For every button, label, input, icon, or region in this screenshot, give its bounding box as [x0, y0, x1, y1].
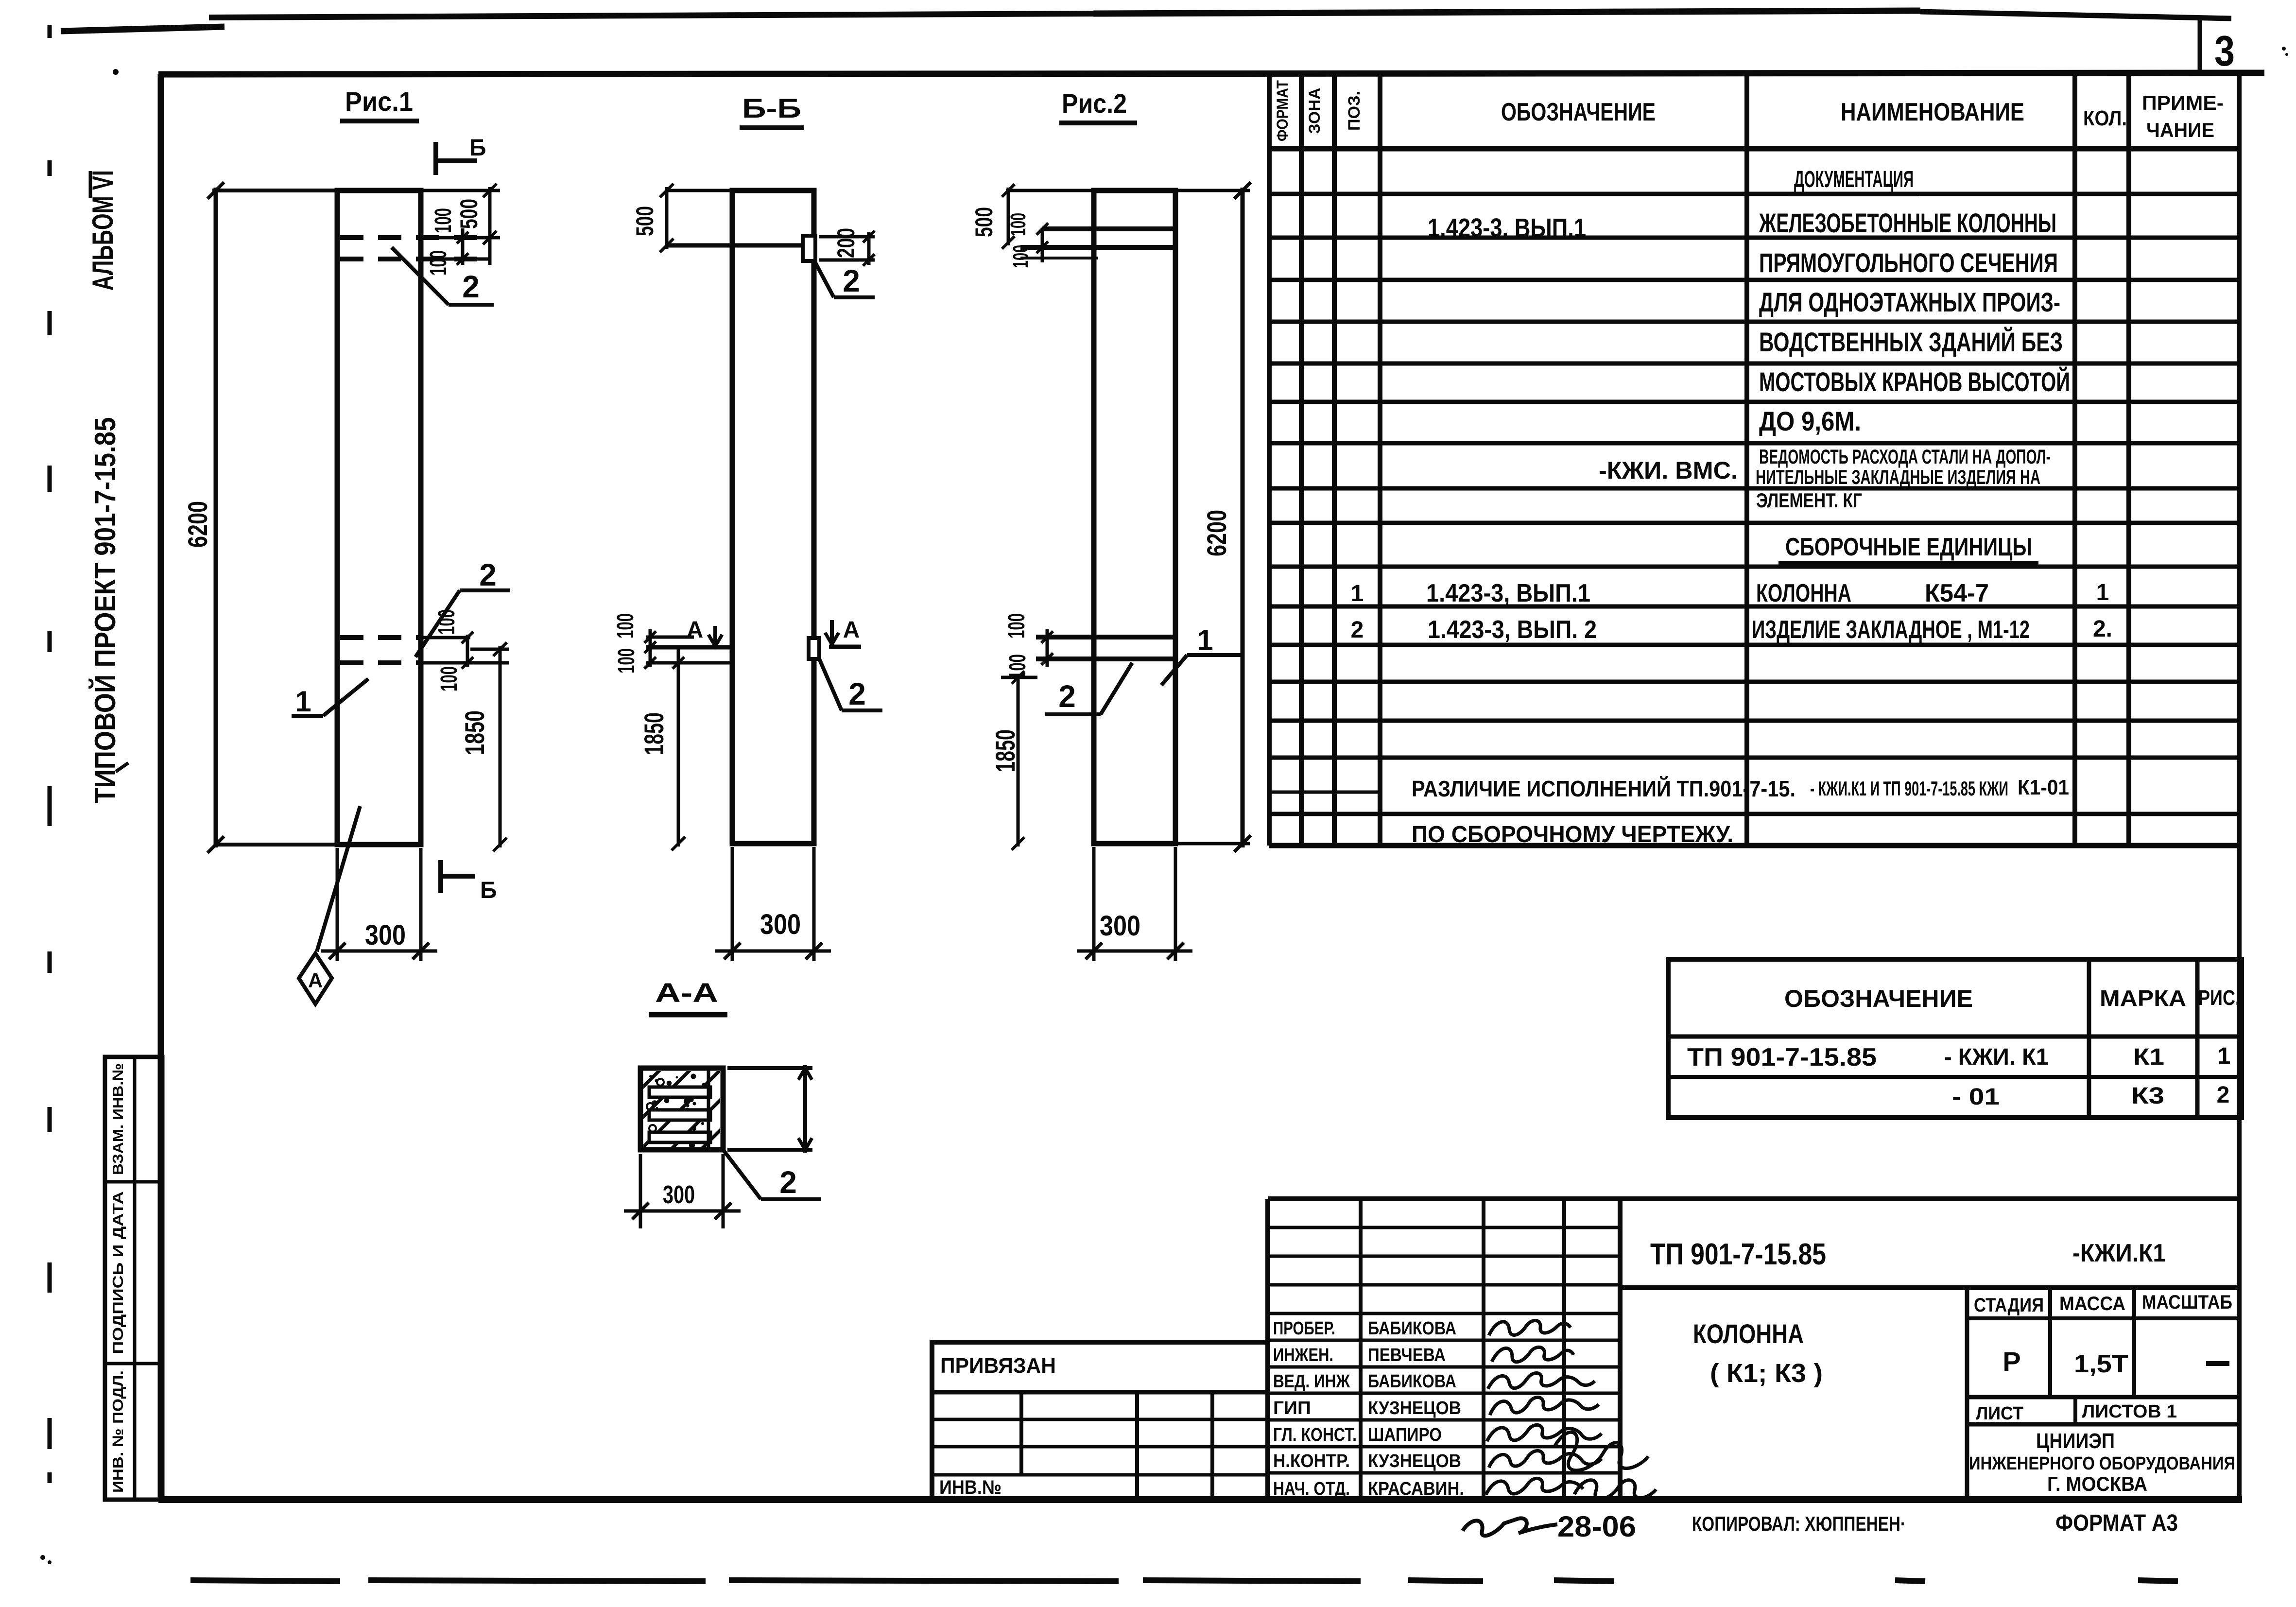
svg-text:ВОДСТВЕННЫХ ЗДАНИЙ БЕЗ: ВОДСТВЕННЫХ ЗДАНИЙ БЕЗ [1759, 327, 2063, 357]
partial row line in narrow columns [1269, 791, 1380, 794]
sheet frame border [158, 73, 2264, 74]
svg-text:28-06: 28-06 [1557, 1510, 1636, 1543]
svg-text:ГИП: ГИП [1273, 1398, 1311, 1418]
dimension 1850 (Б-Б) [677, 648, 680, 847]
svg-text:1: 1 [2218, 1043, 2231, 1069]
svg-text:ИЗДЕЛИЕ ЗАКЛАДНОЕ , М1-12: ИЗДЕЛИЕ ЗАКЛАДНОЕ , М1-12 [1752, 616, 2030, 644]
svg-text:100: 100 [436, 666, 462, 691]
scan artifact: ragged top edge line [61, 27, 224, 31]
svg-text:ШАПИРО: ШАПИРО [1368, 1425, 1442, 1445]
Привязан table grid [932, 1342, 1268, 1500]
svg-text:300: 300 [663, 1181, 695, 1209]
svg-text:2.: 2. [2093, 616, 2112, 642]
svg-text:А: А [308, 969, 323, 992]
svg-text:ИНЖЕНЕРНОГО ОБОРУДОВАНИЯ: ИНЖЕНЕРНОГО ОБОРУДОВАНИЯ [1969, 1453, 2235, 1474]
svg-text:Б: Б [469, 135, 486, 161]
svg-text:КУЗНЕЦОВ: КУЗНЕЦОВ [1368, 1451, 1461, 1471]
column K3 outline (Fig.2) [1094, 190, 1175, 844]
svg-text:( К1; К3 ): ( К1; К3 ) [1710, 1359, 1823, 1388]
svg-text:ОБОЗНАЧЕНИЕ: ОБОЗНАЧЕНИЕ [1501, 98, 1656, 126]
svg-text:1850: 1850 [459, 710, 490, 755]
section mark Б (bottom, Fig.1) [438, 860, 443, 893]
scan artifact: stray specks [40, 1555, 45, 1560]
svg-text:100: 100 [431, 208, 456, 233]
svg-text:-КЖИ. ВМС.: -КЖИ. ВМС. [1599, 457, 1738, 484]
svg-text:ИНВ.№: ИНВ.№ [939, 1477, 1001, 1498]
svg-text:2: 2 [479, 557, 497, 592]
svg-text:Б: Б [480, 878, 497, 903]
small dims 100/100 (Fig.1 middle) [422, 636, 470, 639]
svg-text:1: 1 [1351, 581, 1364, 606]
title block: big designation cell line [1620, 1285, 2239, 1290]
embedded plate lines (Fig.2 top) [1042, 226, 1175, 231]
svg-text:РИС.: РИС. [2198, 986, 2240, 1010]
leader to item 2 (Б-Б middle) [819, 659, 842, 710]
svg-text:300: 300 [760, 909, 801, 940]
svg-text:100: 100 [1006, 213, 1030, 236]
svg-text:ЗОНА: ЗОНА [1306, 88, 1323, 134]
svg-text:ВЕД. ИНЖ: ВЕД. ИНЖ [1273, 1371, 1350, 1392]
dimension 1850 (Fig.1) [499, 646, 502, 847]
svg-text:БАБИКОВА: БАБИКОВА [1368, 1318, 1456, 1339]
svg-text:1: 1 [295, 685, 311, 718]
svg-text:6200: 6200 [1201, 510, 1232, 556]
dimension 200 (Б-Б top right) [819, 235, 875, 239]
dimension 500 (Б-Б top left) [667, 189, 732, 192]
svg-text:ИНВ. № ПОДЛ.: ИНВ. № ПОДЛ. [109, 1370, 126, 1493]
svg-text:300: 300 [365, 919, 406, 951]
svg-text:ПРИМЕ-: ПРИМЕ- [2142, 91, 2224, 114]
dims 500/100/100 (Fig.2 top left) [1006, 189, 1094, 192]
leader to item 2 (Б-Б top) [814, 261, 834, 297]
svg-text:К1: К1 [2133, 1044, 2164, 1070]
svg-text:2: 2 [1351, 617, 1364, 643]
svg-text:НАИМЕНОВАНИЕ: НАИМЕНОВАНИЕ [1841, 98, 2024, 126]
svg-text:500: 500 [455, 199, 483, 229]
svg-text:ГЛ. КОНСТ.: ГЛ. КОНСТ. [1273, 1425, 1357, 1445]
svg-text:- КЖИ. К1: - КЖИ. К1 [1944, 1044, 2049, 1070]
small dims 100/500 (Fig.1 top right) [421, 189, 500, 192]
title block: handwritten signatures [1489, 1320, 1571, 1335]
scan artifact: left dash-dot edge [48, 25, 52, 38]
svg-text:МАСШТАБ: МАСШТАБ [2142, 1292, 2232, 1313]
dimension 300 (А-А bottom) [639, 1154, 642, 1228]
svg-text:ДОКУМЕНТАЦИЯ: ДОКУМЕНТАЦИЯ [1794, 167, 1914, 192]
bottom extension line Fig.1 [216, 843, 337, 847]
svg-text:2: 2 [848, 676, 866, 711]
svg-text:СТАДИЯ: СТАДИЯ [1974, 1295, 2044, 1316]
specification table grid [1267, 73, 1272, 846]
svg-text:- 01: - 01 [1952, 1084, 2000, 1110]
dimension 300 (Fig.1 bottom) [336, 848, 339, 961]
svg-text:ПОДПИСЬ И ДАТА: ПОДПИСЬ И ДАТА [109, 1192, 126, 1354]
section marker diamond A (Fig.1) [317, 806, 360, 951]
handwritten mark bottom center [1463, 1518, 1557, 1536]
svg-text:1.423-3, ВЫП. 2: 1.423-3, ВЫП. 2 [1428, 616, 1597, 644]
top extension line Fig.1 [212, 189, 337, 192]
svg-text:Б-Б: Б-Б [742, 93, 801, 123]
svg-text:2: 2 [2217, 1082, 2230, 1108]
dimension 6200 (Fig.2) [1175, 189, 1250, 192]
svg-text:Н.КОНТР.: Н.КОНТР. [1273, 1451, 1350, 1471]
svg-text:НИТЕЛЬНЫЕ ЗАКЛАДНЫЕ ИЗДЕЛИЯ НА: НИТЕЛЬНЫЕ ЗАКЛАДНЫЕ ИЗДЕЛИЯ НА [1756, 466, 2040, 488]
svg-text:1: 1 [2096, 580, 2109, 605]
svg-text:1850: 1850 [990, 729, 1020, 772]
svg-text:БАБИКОВА: БАБИКОВА [1368, 1371, 1456, 1392]
dimension 300 (Б-Б bottom) [731, 847, 734, 961]
svg-text:2: 2 [1058, 679, 1076, 714]
svg-text:ЧАНИЕ: ЧАНИЕ [2146, 119, 2214, 141]
svg-text:ЦНИИЭП: ЦНИИЭП [2036, 1429, 2115, 1453]
А-А right dimension lines [727, 1066, 812, 1070]
scan artifact: small tick near left frame [116, 763, 128, 772]
А-А section: concrete square with hatching [550, 1068, 903, 1150]
title block grid [1268, 1196, 2239, 1201]
svg-text:-КЖИ.К1: -КЖИ.К1 [2072, 1239, 2166, 1267]
svg-text:ЛИСТ: ЛИСТ [1976, 1403, 2023, 1424]
svg-text:ПРЯМОУГОЛЬНОГО СЕЧЕНИЯ: ПРЯМОУГОЛЬНОГО СЕЧЕНИЯ [1759, 247, 2058, 278]
svg-text:ВЕДОМОСТЬ РАСХОДА СТАЛИ НА ДОП: ВЕДОМОСТЬ РАСХОДА СТАЛИ НА ДОПОЛ- [1759, 445, 2051, 468]
svg-text:МОСТОВЫХ КРАНОВ ВЫСОТОЙ: МОСТОВЫХ КРАНОВ ВЫСОТОЙ [1759, 366, 2070, 397]
svg-text:2: 2 [462, 269, 480, 304]
plate level line (Б-Б) [667, 243, 806, 248]
svg-text:А-А: А-А [655, 977, 718, 1008]
svg-text:ПО СБОРОЧНОМУ ЧЕРТЕЖУ.: ПО СБОРОЧНОМУ ЧЕРТЕЖУ. [1412, 822, 1733, 847]
leader to item 2 (Fig.1 middle) [415, 590, 460, 657]
svg-text:А: А [843, 617, 860, 643]
svg-text:1.423-3, ВЫП.1: 1.423-3, ВЫП.1 [1426, 579, 1590, 607]
svg-text:СБОРОЧНЫЕ ЕДИНИЦЫ: СБОРОЧНЫЕ ЕДИНИЦЫ [1785, 533, 2032, 561]
dimension 1850 (Fig.2) [1017, 675, 1020, 847]
svg-text:КРАСАВИН.: КРАСАВИН. [1368, 1479, 1464, 1499]
leader to item 1 (Fig.1) [292, 714, 323, 718]
svg-text:ПЕВЧЕВА: ПЕВЧЕВА [1368, 1345, 1446, 1365]
svg-text:КОЛ.: КОЛ. [2083, 106, 2127, 130]
svg-text:МАРКА: МАРКА [2100, 985, 2186, 1011]
dimension 6200 (Fig.1) [214, 188, 218, 847]
svg-text:ДЛЯ ОДНОЭТАЖНЫХ ПРОИЗ-: ДЛЯ ОДНОЭТАЖНЫХ ПРОИЗ- [1759, 287, 2060, 317]
svg-text:100: 100 [426, 250, 451, 276]
svg-text:1: 1 [1197, 624, 1213, 657]
svg-text:1,5Т: 1,5Т [2074, 1350, 2128, 1378]
svg-text:ФОРМАТ А3: ФОРМАТ А3 [2055, 1510, 2178, 1536]
mark table grid [1668, 959, 2242, 1118]
leader to item 2 (Fig.2 middle) [1101, 663, 1132, 714]
svg-text:КУЗНЕЦОВ: КУЗНЕЦОВ [1368, 1398, 1461, 1418]
svg-text:ЛИСТОВ 1: ЛИСТОВ 1 [2082, 1401, 2177, 1422]
scan artifact: ragged bottom dashed line [190, 1580, 340, 1581]
svg-text:К54-7: К54-7 [1925, 579, 1989, 607]
svg-text:ТП 901-7-15.85: ТП 901-7-15.85 [1650, 1238, 1826, 1271]
svg-text:Г. МОСКВА: Г. МОСКВА [2047, 1472, 2147, 1495]
page number box [2198, 19, 2202, 73]
leader to item 2 (А-А) [722, 1148, 761, 1199]
dims 100/100 (Б-Б middle left) [646, 636, 694, 639]
svg-text:Рис.2: Рис.2 [1062, 88, 1127, 119]
leader to item 2 (Fig.1 top) [392, 247, 449, 305]
svg-text:ЭЛЕМЕНТ. КГ: ЭЛЕМЕНТ. КГ [1756, 489, 1862, 512]
svg-text:2: 2 [779, 1165, 797, 1200]
leader to item 1 (Fig.2 middle) [1161, 655, 1187, 685]
left margin stamp boxes (Взам.инв.№ / Подпись и дата / Инв.№ подл.) [105, 1057, 162, 1500]
svg-text:ИНЖЕН.: ИНЖЕН. [1273, 1345, 1333, 1365]
svg-text:Рис.1: Рис.1 [345, 86, 413, 117]
svg-text:100: 100 [614, 648, 639, 674]
svg-text:ТИПОВОЙ ПРОЕКТ 901-7-15.85: ТИПОВОЙ ПРОЕКТ 901-7-15.85 [89, 417, 121, 804]
svg-text:РАЗЛИЧИЕ ИСПОЛНЕНИЙ ТП.901-7: РАЗЛИЧИЕ ИСПОЛНЕНИЙ ТП.901-7-15. [1412, 776, 1795, 801]
column K1 outline (Fig.1) [337, 190, 421, 845]
svg-text:500: 500 [970, 207, 998, 237]
svg-text:КОЛОННА: КОЛОННА [1693, 1318, 1804, 1349]
svg-text:К1-01: К1-01 [2018, 776, 2069, 799]
column outline (Б-Б view) [732, 190, 814, 844]
svg-text:НАЧ. ОТД.: НАЧ. ОТД. [1273, 1479, 1350, 1499]
svg-text:100: 100 [1004, 613, 1030, 639]
svg-text:3: 3 [2214, 27, 2235, 75]
svg-text:6200: 6200 [182, 501, 213, 548]
svg-text:А: А [687, 617, 704, 643]
svg-text:ПРОБЕР.: ПРОБЕР. [1273, 1318, 1335, 1339]
svg-text:Р: Р [2003, 1346, 2020, 1377]
svg-text:ПОЗ.: ПОЗ. [1345, 91, 1364, 131]
svg-text:КОПИРОВАЛ: ХЮППЕНЕН·: КОПИРОВАЛ: ХЮППЕНЕН· [1692, 1512, 1906, 1535]
svg-text:ПРИВЯЗАН: ПРИВЯЗАН [940, 1354, 1056, 1378]
svg-text:1850: 1850 [639, 712, 669, 755]
svg-text:КОЛОННА: КОЛОННА [1756, 579, 1851, 607]
svg-text:ОБОЗНАЧЕНИЕ: ОБОЗНАЧЕНИЕ [1784, 985, 1973, 1012]
svg-text:ДО 9,6М.: ДО 9,6М. [1759, 406, 1861, 436]
dimension 300 (Fig.2 bottom) [1092, 847, 1096, 961]
title block: right section grid [1965, 1288, 1969, 1500]
svg-text:500: 500 [631, 206, 658, 236]
svg-text:1.423-3. ВЫП.1: 1.423-3. ВЫП.1 [1428, 213, 1586, 242]
embedded plate lines (Fig.2 middle) [1036, 635, 1175, 639]
svg-text:ЖЕЛЕЗОБЕТОННЫЕ КОЛОННЫ: ЖЕЛЕЗОБЕТОННЫЕ КОЛОННЫ [1759, 207, 2056, 238]
embedded plate dashed lines (top, Fig.1) [340, 235, 487, 240]
svg-text:100: 100 [613, 613, 639, 639]
reinforcement plates inside А-А square [649, 1087, 710, 1097]
svg-text:200: 200 [832, 228, 860, 258]
svg-text:К3: К3 [2131, 1083, 2164, 1109]
embedded plate M1-12 edge (Б-Б top) [803, 236, 815, 261]
svg-text:МАССА: МАССА [2059, 1293, 2125, 1314]
svg-text:ФОРМАТ: ФОРМАТ [1274, 80, 1291, 141]
section mark Б (top) [433, 142, 438, 175]
embedded plate dashed lines (middle, Fig.1) [340, 635, 421, 640]
embedded plate edge (Б-Б middle) [809, 638, 819, 659]
svg-text:ВЗАМ. ИНВ.№: ВЗАМ. ИНВ.№ [109, 1063, 126, 1175]
svg-text:ТП 901-7-15.85: ТП 901-7-15.85 [1687, 1043, 1877, 1071]
svg-text:300: 300 [1100, 910, 1140, 942]
svg-text:2: 2 [843, 263, 860, 298]
svg-text:- КЖИ.К1 И ТП 901-7-15.85 КЖИ: - КЖИ.К1 И ТП 901-7-15.85 КЖИ [1810, 777, 2008, 800]
